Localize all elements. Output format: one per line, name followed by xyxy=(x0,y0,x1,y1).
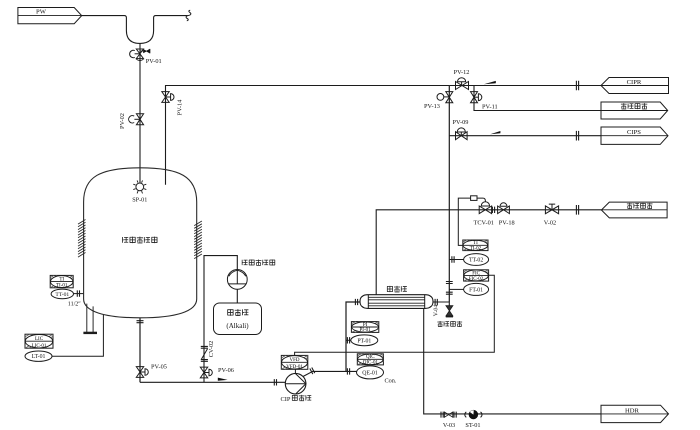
svg-text:FT-01: FT-01 xyxy=(469,287,483,293)
svg-text:PI-01: PI-01 xyxy=(360,328,372,333)
instrument FIC-02 xyxy=(464,270,489,296)
svg-text:PV-14: PV-14 xyxy=(177,99,184,116)
svg-text:SP-01: SP-01 xyxy=(132,197,147,204)
svg-text:LIC: LIC xyxy=(35,337,44,342)
svg-text:TI-02: TI-02 xyxy=(470,246,482,251)
flange QE-01 xyxy=(347,368,349,374)
wire pressurized-drain branch xyxy=(474,86,601,111)
svg-text:TT-02: TT-02 xyxy=(469,258,483,264)
wire pump discharge xyxy=(302,371,356,377)
svg-text:CV-02: CV-02 xyxy=(208,341,215,358)
flow arrow CIPS xyxy=(490,131,500,134)
wire condensate drain xyxy=(424,308,601,414)
instrument TI-01 xyxy=(50,275,73,298)
svg-text:HDR: HDR xyxy=(625,407,640,414)
label sampling port xyxy=(437,321,462,327)
wire HX left nozzle and riser xyxy=(346,302,360,371)
flange steam banner xyxy=(576,205,578,215)
svg-text:TI: TI xyxy=(473,241,478,246)
wire FIC to VFD signal xyxy=(295,275,495,355)
svg-text:ST-01: ST-01 xyxy=(465,422,480,429)
alkali tote box xyxy=(214,303,262,335)
svg-text:PV-02: PV-02 xyxy=(119,113,126,129)
wire HX right nozzle xyxy=(433,301,449,303)
flange CIPS banner xyxy=(576,131,578,141)
flange tank drain xyxy=(137,321,144,323)
svg-text:CIPS: CIPS xyxy=(627,129,641,136)
wire PT-01 tap xyxy=(346,339,351,341)
flange CIPR banner xyxy=(576,81,578,91)
wire CIPR line xyxy=(449,85,601,87)
banner PW xyxy=(18,8,82,24)
banner CIPS xyxy=(601,127,668,144)
svg-text:V-03: V-03 xyxy=(443,422,455,429)
label CIP pump xyxy=(281,395,312,403)
banner industrial steam xyxy=(601,202,667,218)
label dosing pump xyxy=(242,259,275,265)
heat exchanger cap weld ticks xyxy=(362,295,431,308)
check valve CV-02 xyxy=(201,346,208,361)
instrument PI-01 xyxy=(351,322,379,346)
svg-text:TI: TI xyxy=(59,277,64,282)
svg-text:PV-06: PV-06 xyxy=(218,367,234,374)
wire TT-01 tap xyxy=(74,293,84,295)
valve PV-12 xyxy=(456,78,469,90)
wire main riser xyxy=(448,86,450,303)
heat exchanger tube sheets xyxy=(368,295,424,309)
wire LT-01 tap xyxy=(52,314,103,356)
dosing pump xyxy=(227,270,247,290)
banner pressurized drain xyxy=(601,102,668,119)
instrument QIC-01 xyxy=(357,354,384,379)
heat exchanger tubes xyxy=(368,297,424,306)
wire TI-02 to TCV-01 signal xyxy=(458,198,485,245)
steam trap ST-01 xyxy=(465,410,482,419)
wire CIP return line to tank dip tube xyxy=(166,86,450,185)
svg-text:Con.: Con. xyxy=(385,378,397,385)
tank vessel outline xyxy=(84,168,197,318)
valve V-03 xyxy=(441,412,456,418)
tank name label xyxy=(123,237,158,243)
valve PV-18 xyxy=(498,203,510,214)
flange pump suction xyxy=(274,379,276,385)
signal transducer square xyxy=(471,196,477,201)
svg-text:V-02: V-02 xyxy=(544,220,556,227)
wire tank inlet main drop xyxy=(139,43,141,182)
svg-text:QIC-01: QIC-01 xyxy=(363,361,379,366)
valve TCV-01 xyxy=(479,202,491,214)
flow arrow CIPR xyxy=(484,81,496,84)
label alkali box xyxy=(226,309,249,330)
svg-text:TCV-01: TCV-01 xyxy=(474,220,494,227)
svg-text:PV-05: PV-05 xyxy=(151,363,167,370)
tank right insulation hatch xyxy=(194,221,202,259)
svg-text:FIC: FIC xyxy=(472,271,480,276)
banner HDR xyxy=(601,405,669,422)
wire alkali dosing line xyxy=(204,256,237,383)
instrument TI-02 xyxy=(463,240,489,265)
svg-text:PV-18: PV-18 xyxy=(499,220,515,227)
flange steam mid xyxy=(492,207,494,213)
flange pump discharge xyxy=(310,367,315,374)
svg-text:VFD-01: VFD-01 xyxy=(286,365,303,370)
flange HX left xyxy=(355,299,357,305)
flange TT-01 xyxy=(77,290,79,296)
svg-text:PV-12: PV-12 xyxy=(454,69,470,76)
flange riser pair 1 xyxy=(446,282,453,284)
wire TT-02 tap xyxy=(449,259,463,261)
svg-text:FIC-02: FIC-02 xyxy=(469,277,484,282)
CIP pump xyxy=(285,373,306,394)
flange TT-02 xyxy=(452,256,454,262)
heat exchanger shell xyxy=(360,295,433,309)
svg-text:VFD: VFD xyxy=(290,358,300,363)
svg-text:TI-01: TI-01 xyxy=(56,284,68,289)
valve PV-11 xyxy=(471,92,482,103)
svg-text:LT-01: LT-01 xyxy=(32,354,46,360)
svg-text:PV-13: PV-13 xyxy=(424,103,440,110)
valve PV-01 xyxy=(130,49,150,61)
svg-text:QIC: QIC xyxy=(366,355,375,360)
svg-text:V-04: V-04 xyxy=(434,305,440,316)
wire sampling stub xyxy=(448,302,450,306)
wire PW supply header with U loop xyxy=(82,16,188,44)
svg-text:CIP: CIP xyxy=(281,396,291,403)
valve V-02 xyxy=(545,204,558,214)
wire CIPS line xyxy=(449,135,601,137)
flange PT-01 xyxy=(347,337,349,343)
svg-text:PW: PW xyxy=(36,9,47,16)
VFD block xyxy=(281,355,308,370)
tank left insulation hatch xyxy=(78,220,86,258)
tank support leg xyxy=(87,304,93,333)
valve V-04 sampling xyxy=(446,306,453,317)
wire FT-01 tap xyxy=(449,288,463,290)
svg-text:PT-01: PT-01 xyxy=(357,338,371,344)
svg-text:TT-01: TT-01 xyxy=(55,292,69,298)
spray ball SP-01 xyxy=(133,180,146,193)
flange riser pair 2 xyxy=(446,292,453,294)
svg-text:CIPR: CIPR xyxy=(627,79,642,86)
valve PV-06 xyxy=(200,367,212,378)
svg-text:(Alkali): (Alkali) xyxy=(226,322,249,330)
svg-text:LIC-01: LIC-01 xyxy=(32,344,47,349)
instrument LIC-01 xyxy=(25,334,53,361)
svg-text:PV-01: PV-01 xyxy=(146,58,162,65)
valve PV-14 xyxy=(162,92,174,103)
valve PV-09 xyxy=(456,128,468,140)
valve PV-02 xyxy=(129,114,144,125)
banner CIPR xyxy=(601,78,669,94)
svg-text:11/2″: 11/2″ xyxy=(68,301,81,307)
wire VFD to pump xyxy=(294,369,296,373)
valve PV-05 xyxy=(136,367,148,378)
svg-text:PI: PI xyxy=(363,323,368,328)
wire tank drain xyxy=(139,318,141,383)
valve PV-13 xyxy=(437,92,453,103)
wire pump suction bottom line xyxy=(140,381,286,383)
svg-text:PV-11: PV-11 xyxy=(482,103,498,110)
pipe break squiggle xyxy=(186,10,191,21)
wire steam line xyxy=(376,210,601,295)
label heat exchanger xyxy=(387,286,407,292)
flow arrow bottom line xyxy=(218,378,228,381)
svg-text:PV-09: PV-09 xyxy=(453,119,469,126)
flange HX right xyxy=(435,299,437,305)
svg-text:QE-01: QE-01 xyxy=(362,370,378,376)
tank leg foot xyxy=(83,332,97,334)
